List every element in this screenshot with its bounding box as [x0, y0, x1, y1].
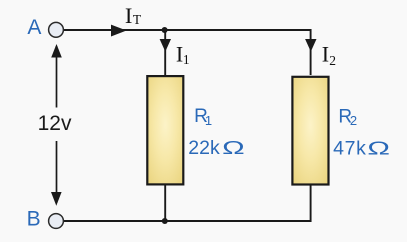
svg-text:1: 1 [183, 52, 190, 67]
svg-text:22k: 22k [188, 137, 220, 159]
svg-text:A: A [27, 16, 41, 39]
svg-text:47k: 47k [333, 138, 367, 160]
svg-text:1: 1 [205, 113, 212, 128]
svg-text:T: T [133, 12, 142, 27]
svg-text:I: I [125, 3, 132, 28]
svg-text:I: I [322, 42, 329, 67]
svg-text:2: 2 [329, 53, 336, 68]
svg-text:2: 2 [350, 113, 357, 128]
svg-text:B: B [27, 207, 41, 230]
svg-text:12v: 12v [38, 112, 72, 135]
svg-text:Ω: Ω [222, 138, 245, 159]
svg-text:Ω: Ω [367, 138, 390, 159]
